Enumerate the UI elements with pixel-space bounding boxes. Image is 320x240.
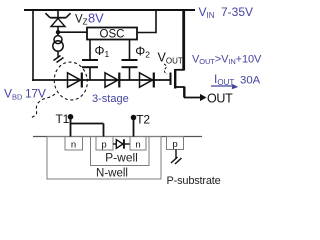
cross-section: p+ substrate contact box [167, 137, 184, 150]
svg-text:30A: 30A [240, 75, 261, 87]
svg-text:N-well: N-well [96, 168, 128, 180]
svg-text:7-35V: 7-35V [221, 5, 253, 19]
wire: source down to OUT arrow [184, 87, 201, 98]
cross-section: surface line [33, 136, 202, 138]
wire: drain vertical to rail (bold) [182, 9, 185, 71]
capacitor C2 [122, 60, 138, 67]
svg-text:p: p [101, 140, 106, 151]
svg-text:OUT: OUT [207, 92, 233, 106]
svg-text:8V: 8V [88, 10, 104, 25]
svg-text:3-stage: 3-stage [92, 93, 129, 105]
wire: T1 to n+ and p+ [70, 117, 104, 137]
wire: phi1 drop from OSC [89, 40, 91, 60]
diode D1 [68, 73, 82, 88]
current source I1 (two overlapping circles) [53, 36, 63, 52]
wire: T2 to n+ cathode [133, 118, 135, 137]
svg-text:OSC: OSC [100, 29, 125, 41]
wire: left rail vertical [32, 9, 34, 81]
svg-text:T1: T1 [56, 112, 70, 126]
svg-text:p: p [172, 139, 177, 150]
wire: below current source with cut marks [54, 51, 64, 62]
zener diode VZ [46, 10, 71, 36]
cross-section: P-well box [91, 137, 150, 166]
svg-text:P-well: P-well [105, 151, 138, 165]
transistor M1 (output NMOS) [171, 69, 185, 89]
wire: OSC right stub up to rail [137, 10, 156, 33]
svg-text:n: n [71, 140, 76, 151]
wire: top VIN rail [24, 9, 195, 11]
wire: phi2 drop from OSC [129, 40, 131, 60]
cross-section: n+ box 2 (cathode in P-well) [130, 137, 146, 151]
leader squiggle from VOUT to gate wire [164, 64, 167, 74]
svg-text:T2: T2 [136, 113, 150, 127]
node: junction dot zener/OSC supply [56, 30, 60, 34]
wire: main charge-pump wire [32, 79, 170, 81]
diode D2 [105, 73, 119, 88]
diode D3 [140, 73, 154, 88]
parasitic diode between p+ and n+ [113, 139, 130, 148]
cross-section: n+ box 1 (N-well contact) [65, 137, 83, 151]
node: T1 dot [68, 114, 74, 120]
capacitor C1 [82, 60, 98, 67]
svg-text:P-substrate: P-substrate [167, 175, 221, 187]
dashed ellipse around D1 [52, 60, 90, 102]
wire: supply to OSC [58, 31, 87, 33]
svg-text:n: n [135, 140, 140, 151]
wire: C2 bottom lead [129, 67, 131, 80]
svg-text:VBD17V: VBD17V [4, 87, 46, 102]
cross-section: N-well box [47, 137, 161, 180]
dashed leader to VBD label [30, 94, 55, 119]
substrate ground symbol [171, 150, 182, 165]
wire: C1 bottom lead [89, 67, 91, 80]
oscillator box OSC [87, 28, 137, 41]
node: T2 dot [131, 115, 137, 121]
cross-section: p+ box (anode in P-well) [96, 137, 113, 151]
